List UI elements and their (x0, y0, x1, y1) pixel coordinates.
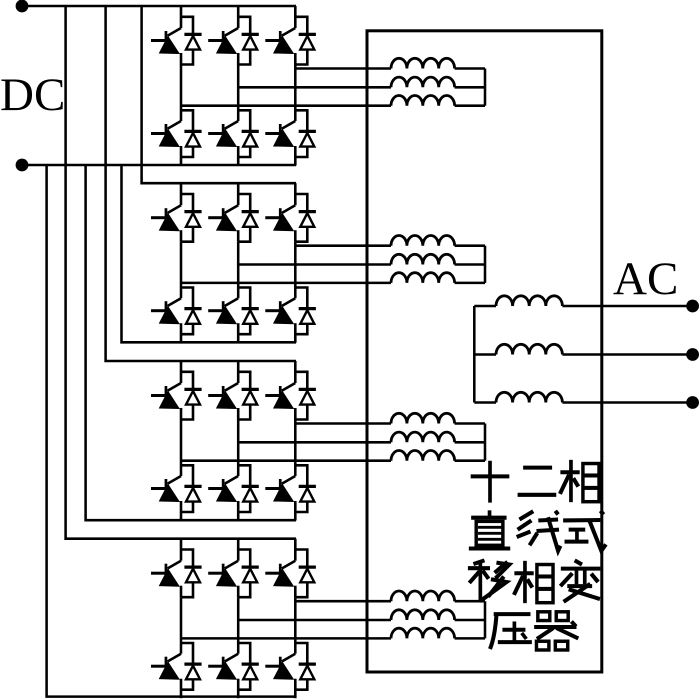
wire star point set 2 (484, 246, 487, 283)
wire leg 3 midpoint bridge 3 (294, 420, 297, 477)
transistor Q2 (bridge 1 upper leg 2) (208, 6, 238, 65)
AC terminal phase B (686, 348, 699, 361)
transistor Q19 (bridge 4 upper leg 1) (151, 539, 181, 598)
wire DC- bus to bridge 3 bottom rail (86, 165, 296, 520)
transistor Q14 (bridge 3 upper leg 2) (208, 361, 238, 420)
wire winding 7 to star point (455, 422, 485, 425)
caption char 相 (560, 460, 599, 502)
inductor L11 (primary winding, set 4) (391, 610, 455, 620)
wire winding 5 to star point (455, 263, 485, 266)
wire AC output phase A (562, 305, 692, 308)
transistor Q3 (bridge 1 upper leg 3) (265, 6, 295, 65)
wire phase output bridge 2 leg 1 (181, 282, 391, 285)
wire phase output bridge 2 leg 3 (295, 244, 391, 247)
diode D11 (freewheel of Q11) (238, 288, 259, 335)
transistor Q7 (bridge 2 upper leg 1) (151, 183, 181, 242)
wire winding 9 to star point (455, 459, 485, 462)
transistor Q15 (bridge 3 upper leg 3) (265, 361, 295, 420)
diode D14 (freewheel of Q14) (238, 372, 259, 420)
wire phase output bridge 3 leg 3 (295, 422, 391, 425)
wire winding 4 to star point (455, 244, 485, 247)
diode D24 (freewheel of Q24) (295, 643, 316, 690)
transistor Q8 (bridge 2 upper leg 2) (208, 183, 238, 242)
transformer box (12-phase linear phase-shifting transformer) (367, 31, 602, 672)
label AC (613, 253, 678, 305)
diode D17 (freewheel of Q17) (238, 465, 259, 512)
inductor L5 (primary winding, set 2) (391, 254, 455, 264)
wire phase output bridge 4 leg 3 (295, 600, 391, 603)
transistor Q11 (bridge 2 lower leg 2) (208, 298, 238, 343)
wire phase output bridge 1 leg 3 (295, 67, 391, 70)
caption char 式 (563, 511, 606, 551)
diode D10 (freewheel of Q10) (181, 288, 202, 335)
wire star point set 3 (484, 424, 487, 461)
inductor L1 (primary winding, set 1) (391, 58, 455, 68)
transistor Q1 (bridge 1 upper leg 1) (151, 6, 181, 65)
diode D13 (freewheel of Q13) (181, 372, 202, 420)
diode D3 (freewheel of Q3) (295, 17, 316, 65)
diode D23 (freewheel of Q23) (238, 643, 259, 690)
diode D5 (freewheel of Q5) (238, 110, 259, 157)
wire DC+ bus to bridge 3 top rail (106, 6, 296, 361)
wire phase output bridge 4 leg 2 (238, 619, 391, 622)
caption char 器 (534, 612, 578, 650)
diode D20 (freewheel of Q20) (238, 550, 259, 598)
wire AC output phase C (562, 401, 692, 404)
transistor Q17 (bridge 3 lower leg 2) (208, 476, 238, 521)
wire leg 1 midpoint bridge 4 (180, 597, 183, 654)
diode D18 (freewheel of Q18) (295, 465, 316, 512)
inductor L7 (primary winding, set 3) (391, 413, 455, 423)
diode D2 (freewheel of Q2) (238, 17, 259, 65)
wire phase output bridge 2 leg 2 (238, 263, 391, 266)
diode D7 (freewheel of Q7) (181, 194, 202, 242)
wire phase output bridge 4 leg 1 (181, 637, 391, 640)
wire leg 3 midpoint bridge 4 (294, 597, 297, 654)
wire leg 1 midpoint bridge 1 (180, 65, 183, 122)
inductor L2 (primary winding, set 1) (391, 77, 455, 87)
diode D9 (freewheel of Q9) (295, 194, 316, 242)
wire winding 1 to star point (455, 67, 485, 70)
wire winding 6 to star point (455, 282, 485, 285)
svg-text:DC: DC (0, 69, 65, 121)
inductor L10 (primary winding, set 4) (391, 591, 455, 601)
transistor Q16 (bridge 3 lower leg 1) (151, 476, 181, 521)
caption char 相 (514, 561, 553, 603)
wire leg 3 midpoint bridge 2 (294, 242, 297, 299)
transistor Q9 (bridge 2 upper leg 3) (265, 183, 295, 242)
wire leg 1 midpoint bridge 3 (180, 420, 183, 477)
inductor L9 (primary winding, set 3) (391, 451, 455, 461)
diode D16 (freewheel of Q16) (181, 465, 202, 512)
wire phase output bridge 1 leg 1 (181, 104, 391, 107)
wire winding 12 to star point (455, 637, 485, 640)
diode D8 (freewheel of Q8) (238, 194, 259, 242)
inductor L13 (secondary winding phase A) (496, 296, 562, 306)
transistor Q24 (bridge 4 lower leg 3) (265, 654, 295, 699)
transistor Q6 (bridge 1 lower leg 3) (265, 121, 295, 166)
AC terminal phase C (686, 396, 699, 409)
caption char 线 (517, 511, 561, 551)
wire phase output bridge 3 leg 2 (238, 441, 391, 444)
diode D15 (freewheel of Q15) (295, 372, 316, 420)
transistor Q12 (bridge 2 lower leg 3) (265, 298, 295, 343)
caption char 移 (468, 560, 509, 601)
wire leg 3 midpoint bridge 1 (294, 65, 297, 122)
transistor Q22 (bridge 4 lower leg 1) (151, 654, 181, 699)
svg-text:AC: AC (613, 253, 678, 305)
wire winding 10 to star point (455, 600, 485, 603)
wire DC+ top rail (22, 5, 296, 8)
transistor Q5 (bridge 1 lower leg 2) (208, 121, 238, 166)
inductor L6 (primary winding, set 2) (391, 273, 455, 283)
caption char 变 (560, 560, 600, 601)
caption char 直 (469, 510, 510, 548)
DC negative terminal (16, 159, 29, 172)
caption char 压 (490, 614, 532, 649)
wire DC+ bus to bridge 4 top rail (66, 6, 296, 539)
caption char 十 (471, 461, 510, 503)
transistor Q20 (bridge 4 upper leg 2) (208, 539, 238, 598)
wire winding 8 to star point (455, 441, 485, 444)
inductor L12 (primary winding, set 4) (391, 628, 455, 638)
wire AC output phase B (562, 353, 692, 356)
wire star to secondary winding C (474, 401, 496, 404)
wire star point set 1 (484, 69, 487, 106)
wire leg 2 midpoint bridge 4 (237, 597, 240, 654)
diode D4 (freewheel of Q4) (181, 110, 202, 157)
wire leg 2 midpoint bridge 3 (237, 420, 240, 477)
label DC (0, 69, 65, 121)
diode D1 (freewheel of Q1) (181, 17, 202, 65)
transistor Q13 (bridge 3 upper leg 1) (151, 361, 181, 420)
transistor Q4 (bridge 1 lower leg 1) (151, 121, 181, 166)
diode D19 (freewheel of Q19) (181, 550, 202, 598)
wire phase output bridge 3 leg 1 (181, 459, 391, 462)
wire star to secondary winding B (474, 353, 496, 356)
wire secondary star bar (473, 306, 476, 403)
wire star to secondary winding A (474, 305, 496, 308)
inductor L14 (secondary winding phase B) (496, 344, 562, 354)
wire leg 1 midpoint bridge 2 (180, 242, 183, 299)
DC positive terminal (16, 0, 29, 12)
wire winding 11 to star point (455, 619, 485, 622)
transistor Q18 (bridge 3 lower leg 3) (265, 476, 295, 521)
wire phase output bridge 1 leg 2 (238, 86, 391, 89)
AC terminal phase A (686, 300, 699, 313)
wire winding 3 to star point (455, 104, 485, 107)
transistor Q10 (bridge 2 lower leg 1) (151, 298, 181, 343)
diode D22 (freewheel of Q22) (181, 643, 202, 690)
inductor L4 (primary winding, set 2) (391, 236, 455, 246)
transistor Q21 (bridge 4 upper leg 3) (265, 539, 295, 598)
inductor L15 (secondary winding phase C) (496, 392, 562, 402)
diode D12 (freewheel of Q12) (295, 288, 316, 335)
inductor L8 (primary winding, set 3) (391, 432, 455, 442)
caption char 二 (518, 468, 557, 495)
wire DC- bus to bridge 2 bottom rail (122, 165, 297, 342)
inductor L3 (primary winding, set 1) (391, 96, 455, 106)
wire DC+ bus to bridge 2 top rail (142, 6, 296, 183)
wire winding 2 to star point (455, 86, 485, 89)
wire leg 2 midpoint bridge 1 (237, 65, 240, 122)
diode D6 (freewheel of Q6) (295, 110, 316, 157)
wire DC- bus to bridge 4 bottom rail (47, 165, 296, 697)
wire star point set 4 (484, 601, 487, 638)
diode D21 (freewheel of Q21) (295, 550, 316, 598)
wire leg 2 midpoint bridge 2 (237, 242, 240, 299)
transistor Q23 (bridge 4 lower leg 2) (208, 654, 238, 699)
wire DC- rail (22, 164, 296, 167)
